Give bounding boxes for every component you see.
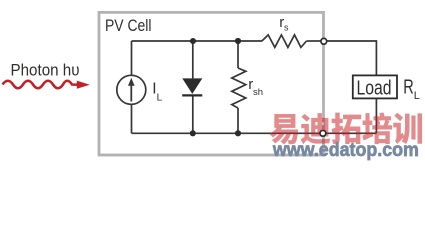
wire: left branch upper [131,41,133,75]
label Load [357,78,392,100]
current source I_L [117,75,146,104]
diode D1 [182,78,202,95]
wire: left branch lower [131,104,133,133]
wire: node to load corner [327,41,377,75]
label I_L [152,81,162,104]
svg-text:L: L [157,92,163,103]
Photon hv label [11,61,80,80]
load box [353,75,397,98]
svg-text:s: s [284,23,289,33]
wire: r_sh branch lower [237,108,239,133]
label R_L [403,76,420,102]
watermark url www.edatop.com [272,140,419,161]
photon wave arrow [3,81,90,89]
svg-text:sh: sh [253,87,263,98]
junction dot diode top [190,38,196,44]
resistor r_sh [232,68,246,108]
wire: bottom rail [132,132,377,134]
junction dot r_sh top [235,38,241,44]
watermark char 训 [393,113,422,144]
wire: r_sh branch upper [237,41,239,68]
PV Cell label [105,16,152,35]
node: output terminal top (open circle) [321,38,327,44]
PV Cell box [99,12,324,155]
watermark char 培 [362,112,392,144]
svg-text:Photon hυ: Photon hυ [11,61,80,80]
label r_sh [248,76,263,98]
svg-text:L: L [414,90,420,102]
wire: load bottom [375,98,377,133]
wire: diode branch [192,41,194,133]
node: output terminal bottom (open circle) [320,130,326,136]
svg-text:PV Cell: PV Cell [105,16,152,35]
resistor r_s [262,35,307,48]
svg-text:www.edatop.com: www.edatop.com [272,140,419,161]
watermark char 易 [269,114,298,144]
svg-text:Load: Load [357,78,392,100]
junction dot r_sh bottom [235,130,241,136]
wire: r_s to output node [307,40,321,42]
label r_s [279,14,289,33]
watermark char 拓 [331,113,361,145]
svg-text:R: R [403,76,414,98]
watermark char 迪 [301,113,331,144]
junction dot diode bottom [190,130,196,136]
wire: top rail [132,40,263,42]
